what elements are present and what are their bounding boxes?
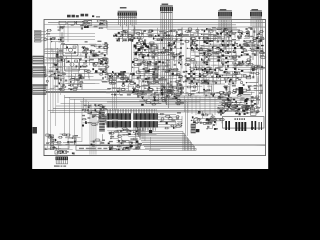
- wire run: [198, 50, 206, 59]
- capacitor C411: [260, 56, 266, 58]
- ic IC1226: [118, 73, 120, 75]
- capacitor C269: [98, 47, 100, 48]
- wire run: [130, 31, 143, 39]
- ic IC1224: [109, 75, 111, 77]
- wire run: [199, 67, 207, 73]
- capacitor C413: [245, 45, 250, 47]
- wire run: [163, 92, 171, 95]
- value label for R496: [180, 92, 184, 93]
- diode D265: [220, 110, 223, 112]
- capacitor C513: [143, 99, 148, 100]
- value label for R353: [142, 41, 146, 42]
- wire run: [105, 76, 108, 79]
- resistor R476: [250, 72, 255, 74]
- diode D210: [206, 28, 208, 30]
- label IC1201: [112, 119, 118, 120]
- resistor R534: [239, 92, 245, 94]
- transistor Q1207: [105, 62, 108, 65]
- wire run: [154, 57, 158, 64]
- value label for R595: [87, 113, 91, 114]
- ic IC1267: [212, 95, 214, 97]
- wire run: [90, 62, 99, 67]
- value label for R644: [208, 121, 212, 122]
- capacitor C339: [158, 52, 159, 54]
- resistor R362: [146, 62, 152, 64]
- capacitor C243: [225, 28, 226, 30]
- transistor Q256: [136, 140, 139, 142]
- wires from connector CN1501 pins: [219, 16, 231, 50]
- capacitor C514: [176, 100, 181, 102]
- capacitor C436: [249, 89, 251, 90]
- wire run: [241, 98, 256, 106]
- value label for R401: [163, 79, 167, 80]
- ic IC1102: [68, 21, 75, 24]
- wire: left rail 1: [46, 30, 48, 150]
- capacitor C371: [198, 49, 204, 51]
- wire run: [102, 44, 107, 52]
- wire run: [117, 130, 130, 133]
- ic IC1248: [185, 71, 187, 72]
- ic IC1287: [74, 141, 76, 143]
- wire run: [253, 46, 260, 52]
- capacitor C437: [249, 86, 250, 88]
- wire run: [193, 83, 198, 90]
- value label for R558: [217, 111, 221, 112]
- wire: mid bus 9: [80, 100, 225, 102]
- wire: line under video: [46, 88, 110, 90]
- ic IC1233: [190, 71, 192, 73]
- capacitor C373: [215, 47, 221, 49]
- value label for R317: [57, 71, 60, 72]
- transistor Q247: [117, 91, 119, 93]
- ic IC1273: [251, 105, 253, 106]
- wire run: [221, 63, 226, 64]
- capacitor C443: [206, 95, 207, 97]
- ic IC1203: [168, 35, 170, 37]
- value label for R506: [120, 94, 123, 95]
- capacitor C394: [224, 52, 229, 54]
- wire run: [141, 80, 153, 83]
- value label for R209: [80, 25, 83, 26]
- wire run: [241, 91, 255, 93]
- resistor R523: [99, 73, 104, 75]
- capacitor C202: [81, 27, 82, 29]
- resistor R604: [114, 131, 119, 132]
- resistor R659: [175, 116, 180, 118]
- wire run: [145, 73, 154, 82]
- resistor R420: [233, 73, 239, 75]
- wire run: [234, 32, 249, 36]
- value label for R633: [58, 144, 62, 145]
- capacitor C241: [247, 30, 248, 32]
- wire run: [196, 67, 212, 74]
- capacitor C283: [99, 58, 100, 60]
- capacitor C480: [122, 128, 128, 129]
- value label for R239: [217, 36, 221, 37]
- capacitor C357: [185, 80, 186, 82]
- capacitor C461: [103, 106, 104, 108]
- wire run: [183, 27, 197, 36]
- wire run: [238, 94, 250, 95]
- resistor R459: [242, 49, 247, 51]
- capacitor C455: [251, 100, 253, 101]
- diode D1406: [153, 97, 156, 100]
- resistor R567: [242, 107, 248, 109]
- wire drops from bus into IF cluster: [83, 98, 91, 110]
- capacitor C314: [151, 44, 153, 45]
- capacitor C487: [121, 130, 122, 132]
- value label for R203: [94, 26, 97, 27]
- wire run: [175, 61, 182, 69]
- ic IC1202 bottom pin row: [133, 121, 158, 127]
- value label for R490: [132, 88, 136, 89]
- resistor R624: [47, 136, 53, 138]
- diode D222: [80, 77, 82, 78]
- transistor Q250: [224, 86, 227, 88]
- capacitor C403: [246, 45, 247, 47]
- value label for R454: [255, 50, 259, 51]
- diode D261: [236, 105, 239, 107]
- value label for R441: [201, 77, 204, 78]
- wire run: [237, 58, 251, 65]
- value label for R502: [151, 83, 155, 84]
- wire run: [239, 33, 244, 35]
- net label H-OUT: [258, 99, 259, 100]
- wire run: [113, 87, 129, 89]
- resistor R475: [235, 72, 241, 74]
- wire run: [259, 36, 262, 41]
- resistor R645: [215, 119, 221, 121]
- ic IC1218: [143, 68, 145, 69]
- transistor Q228: [193, 73, 195, 75]
- resistor R616: [137, 144, 142, 146]
- wire run: [108, 132, 119, 138]
- capacitor C282: [103, 63, 104, 65]
- wire run: [120, 26, 135, 34]
- wire run: [50, 85, 54, 89]
- wire run: [209, 83, 225, 85]
- resistor R539: [186, 86, 192, 88]
- capacitor C468: [103, 119, 105, 120]
- wire run: [249, 46, 259, 54]
- transistor Q237: [199, 76, 201, 78]
- wire run: [209, 34, 214, 41]
- resistor R510: [167, 91, 173, 93]
- resistor R565: [227, 103, 232, 105]
- wire run: [195, 65, 202, 74]
- wire run: [100, 106, 106, 107]
- value label for R481: [140, 90, 144, 91]
- wires from connector CN1202 pins: [119, 16, 137, 42]
- value label for R294: [82, 66, 86, 67]
- ic IC1234: [196, 83, 198, 85]
- transistor Q206: [246, 33, 247, 34]
- value label for R503: [154, 92, 158, 93]
- resistor R625: [45, 134, 51, 136]
- diode D214: [95, 70, 98, 72]
- wire run: [83, 122, 92, 124]
- resistor R341: [151, 51, 156, 53]
- capacitor C385: [212, 76, 213, 78]
- resistor R368: [108, 78, 113, 80]
- ic IC1262: [105, 63, 107, 65]
- value label for R393: [170, 53, 174, 54]
- capacitor C223: [178, 34, 180, 35]
- wires audio/video input routing: [46, 24, 95, 42]
- transistor Q227: [230, 79, 232, 81]
- capacitor C206: [100, 23, 101, 25]
- value label for R281: [91, 50, 95, 51]
- value label for R219: [148, 31, 152, 32]
- wire run: [116, 80, 132, 82]
- transistor Q263: [154, 99, 156, 101]
- resistor R413: [190, 83, 195, 85]
- ic IC1206: [220, 32, 222, 34]
- wire run: [217, 107, 222, 113]
- transistor Q235: [206, 71, 208, 73]
- wire run: [148, 83, 163, 88]
- resistor R613: [124, 148, 129, 150]
- diode D236: [204, 68, 206, 70]
- ic IC1241: [206, 62, 207, 63]
- ic IC1211: [227, 33, 228, 35]
- resistor R649: [207, 122, 212, 124]
- capacitor C519: [175, 94, 181, 96]
- capacitor C467: [102, 106, 103, 108]
- resistor R524: [99, 61, 104, 63]
- resistor R605: [108, 132, 115, 134]
- capacitor C321: [141, 44, 148, 45]
- value label for R308: [55, 86, 58, 87]
- capacitor C299: [155, 63, 156, 65]
- wire run: [176, 47, 182, 49]
- capacitor C219: [118, 33, 120, 34]
- wire run: [157, 90, 171, 94]
- capacitor C489: [136, 147, 137, 149]
- capacitor C234: [176, 32, 178, 33]
- capacitor C330: [129, 82, 135, 84]
- wire run: [144, 82, 149, 90]
- resistor R359: [151, 44, 157, 46]
- capacitor C239: [253, 31, 255, 32]
- capacitor C486: [122, 148, 123, 150]
- wire run: [125, 32, 139, 38]
- resistor R1201: [67, 15, 71, 18]
- value label for R311: [49, 71, 53, 72]
- wire run: [206, 73, 213, 75]
- capacitor C368: [188, 64, 189, 66]
- value label for R303: [48, 76, 51, 77]
- wire run: [223, 30, 229, 37]
- capacitor C214: [180, 34, 181, 36]
- wire run: [175, 87, 182, 95]
- wire run: [127, 73, 132, 81]
- wire run: [114, 75, 126, 81]
- diode D258: [132, 91, 134, 93]
- wire run: [209, 56, 220, 57]
- wire run: [54, 144, 58, 153]
- wire run: [106, 50, 108, 54]
- resistor R591: [81, 119, 86, 120]
- wire run: [204, 71, 211, 76]
- capacitor C518: [180, 87, 181, 89]
- value label for R443: [232, 57, 235, 58]
- wire run: [149, 52, 158, 56]
- value label for R682: [168, 87, 172, 88]
- value label for R410: [202, 55, 206, 56]
- capacitor C472: [102, 113, 103, 115]
- resistor R395: [178, 76, 184, 78]
- diode D225: [135, 47, 136, 49]
- transistor Q238: [234, 71, 236, 73]
- resistor R619: [132, 138, 138, 140]
- value label for R507: [112, 88, 116, 89]
- ic IC1221: [134, 82, 136, 84]
- capacitor C346: [179, 80, 181, 81]
- wire run: [125, 143, 139, 149]
- value label for R460: [239, 63, 243, 64]
- capacitor C216: [142, 33, 143, 35]
- value label for R389: [166, 60, 170, 61]
- value label for R636: [65, 144, 69, 145]
- diode D268: [227, 98, 229, 100]
- value label for R562: [241, 106, 245, 107]
- wire run: [234, 104, 242, 111]
- ic IC1214: [83, 47, 84, 49]
- wire run: [136, 61, 148, 69]
- wire run: [60, 134, 67, 138]
- resistor R348: [155, 66, 161, 67]
- wire run: [203, 46, 213, 50]
- value label for R599: [126, 134, 129, 135]
- capacitor C409: [261, 66, 263, 67]
- wire: top bus line 3: [57, 26, 265, 28]
- transistor Q234: [232, 83, 234, 85]
- wire run: [127, 86, 134, 89]
- resistor R291: [84, 49, 89, 50]
- wire run: [168, 54, 175, 63]
- value label for R478: [177, 83, 181, 84]
- capacitor C221: [136, 32, 141, 34]
- ic IC1231: [207, 82, 210, 84]
- capacitor C225: [118, 39, 119, 41]
- wire: void right edge vertical: [131, 40, 133, 72]
- resistor R260: [187, 28, 192, 30]
- wire run: [143, 99, 158, 102]
- value label for R556: [248, 107, 251, 108]
- resistor R1202: [72, 15, 75, 18]
- capacitor C350: [168, 83, 169, 85]
- diode D270: [246, 98, 248, 100]
- capacitor C231: [114, 35, 115, 37]
- wire run: [139, 36, 152, 37]
- diode D1405: [141, 96, 144, 99]
- capacitor C435: [235, 91, 236, 93]
- wire run: [253, 100, 258, 105]
- diode D274: [55, 139, 56, 141]
- resistor R220: [179, 35, 185, 37]
- resistor R669: [161, 100, 166, 102]
- wire fan from IC1202 to deflection: [136, 131, 196, 150]
- wire run: [211, 30, 216, 34]
- wire bundle center verticals: [176, 30, 213, 98]
- value label for R373: [112, 79, 116, 80]
- capacitor C205: [59, 27, 64, 28]
- resistor R306: [61, 86, 67, 88]
- value label for R557: [236, 104, 240, 105]
- wire run: [256, 106, 258, 113]
- transistor Q1204: [138, 48, 141, 51]
- transistor Q218: [145, 78, 147, 80]
- capacitor C372: [217, 56, 218, 58]
- wire run: [191, 62, 206, 64]
- resistor R603: [126, 130, 132, 131]
- ic IC1255: [241, 54, 243, 56]
- ic IC1236: [224, 71, 226, 73]
- wire run: [185, 80, 199, 83]
- value label for R468: [251, 45, 255, 46]
- wire run: [73, 79, 77, 87]
- ic IC1202 top pin row: [133, 113, 158, 119]
- capacitor C222: [131, 39, 132, 41]
- value label for R596: [87, 117, 90, 118]
- connector CN1801 (CRT socket board): [222, 117, 264, 132]
- transistor Q251: [246, 103, 248, 105]
- value label for R292: [90, 59, 94, 60]
- transistor Q221: [112, 76, 113, 78]
- value label for R501: [122, 92, 126, 93]
- value label for R366: [122, 77, 125, 78]
- ic IC1103: [77, 21, 85, 24]
- wire run: [106, 46, 107, 53]
- capacitor C227: [121, 35, 123, 36]
- capacitor C476: [88, 109, 89, 111]
- value label for R518: [105, 73, 109, 74]
- capacitor C273: [98, 51, 100, 52]
- wire run: [195, 67, 207, 71]
- value label for R384: [180, 43, 184, 44]
- resistor R525: [242, 89, 248, 91]
- resistor R204: [82, 21, 88, 23]
- value label for R610: [137, 144, 141, 145]
- resistor R216: [122, 30, 128, 32]
- wire run: [196, 92, 204, 95]
- ic IC1288: [91, 144, 93, 146]
- capacitor C237: [246, 28, 247, 30]
- capacitor C408: [253, 66, 259, 68]
- value label for R600: [138, 143, 142, 144]
- ic IC1268: [246, 108, 249, 110]
- capacitor C439: [243, 85, 245, 86]
- wire: mid bus 8: [70, 98, 232, 100]
- capacitor C308: [148, 78, 150, 79]
- wire run: [235, 73, 236, 81]
- value label for R409: [216, 76, 220, 77]
- transistor Q244: [261, 45, 264, 46]
- capacitor C264: [192, 40, 197, 42]
- value label for R227: [163, 38, 167, 39]
- capacitor C271: [96, 54, 97, 56]
- wire run: [56, 141, 69, 149]
- wire run: [202, 118, 209, 123]
- wire run: [177, 120, 182, 122]
- wire: mid bus 10: [50, 111, 99, 113]
- resistor R629: [58, 136, 63, 138]
- resistor R235: [148, 35, 153, 37]
- resistor R316: [53, 63, 59, 64]
- ic IC1216: [70, 88, 72, 90]
- wire run: [106, 57, 108, 59]
